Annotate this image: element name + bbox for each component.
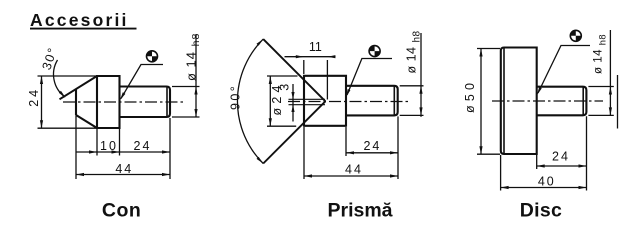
centerline [492, 100, 603, 102]
arrows of 24 [346, 151, 398, 154]
block rectangle [304, 75, 346, 127]
head rectangle [97, 75, 120, 129]
dim o50: extension lines [477, 49, 500, 155]
dim 24 left: dimension line [41, 76, 43, 128]
arrows of 40 [501, 186, 587, 189]
text 40 [538, 174, 556, 188]
leader line to datum symbol [347, 59, 392, 96]
shaft chamfer line [393, 86, 395, 116]
dim 11: arrows [296, 55, 336, 58]
svg-text:ø50: ø50 [463, 79, 477, 113]
datum symbol (quadrant circle) [369, 46, 380, 57]
svg-text:Disc: Disc [520, 200, 562, 222]
svg-text:ø 14 h8: ø 14 h8 [184, 33, 203, 81]
title underline [30, 28, 137, 30]
svg-text:Prismă: Prismă [327, 200, 392, 222]
dim 24 left: arrows [40, 76, 43, 128]
svg-text:Con: Con [102, 200, 141, 222]
dim 3: dimension line [292, 84, 294, 122]
text 44 [115, 162, 133, 176]
svg-text:40: 40 [538, 174, 556, 188]
dim 3: text [278, 84, 292, 91]
right border segment [617, 75, 619, 129]
dim line 44 [304, 175, 398, 177]
leader arrow [346, 89, 350, 97]
dim o14 h8: extension lines [172, 87, 200, 118]
dim o24: dimension line [269, 76, 271, 126]
svg-text:44: 44 [345, 163, 363, 177]
shaft outline [537, 87, 587, 116]
dim o50: text [463, 79, 477, 113]
dim line 44 [76, 174, 170, 176]
svg-text:24: 24 [134, 139, 152, 153]
angle dim 30: arrow [59, 91, 66, 98]
svg-text:90°: 90° [229, 84, 243, 110]
text 24 [552, 149, 570, 163]
V-groove lower flank (extended) [263, 101, 325, 163]
label Prisma [327, 200, 392, 222]
arrows of 44 [304, 174, 398, 177]
centerline [63, 101, 184, 103]
svg-text:11: 11 [309, 40, 322, 54]
dim o14 h8: arrows [419, 86, 422, 116]
centerline [288, 101, 409, 103]
svg-text:24: 24 [27, 87, 41, 107]
dim o50: dimension line [480, 49, 482, 155]
bottom extension lines [304, 116, 398, 179]
shaft chamfer line [582, 87, 584, 116]
svg-text:10: 10 [100, 139, 118, 153]
cone bottom slant [76, 115, 97, 128]
dim 11: text [309, 40, 322, 54]
bottom extension lines [501, 116, 587, 190]
disc rectangle [501, 48, 537, 155]
leader line to datum symbol [121, 65, 163, 99]
svg-text:ø 14 h8: ø 14 h8 [593, 34, 608, 74]
dim o24: arrows [269, 76, 272, 126]
arrows of 24 [537, 164, 587, 167]
dim 11: extension lines [304, 60, 328, 100]
center hole outline [289, 99, 326, 104]
datum symbol (quadrant circle) [147, 51, 158, 62]
dim o14 h8: dimension line [195, 34, 197, 117]
dim o14 h8: arrows [609, 87, 612, 116]
svg-text:24: 24 [363, 139, 381, 153]
cone top slant (extended for angle dim) [60, 76, 98, 99]
shaft outline [120, 87, 171, 118]
dim o24: extension lines [267, 76, 298, 126]
arrows of 44 [76, 173, 170, 176]
dim o24: text [270, 81, 284, 115]
leader arrow [537, 87, 542, 95]
dim o14 h8: dimension line [420, 33, 422, 117]
dim 24 left: extension lines [38, 76, 97, 128]
dim o14 h8: arrows [194, 87, 197, 118]
dim 11: dimension line [285, 56, 336, 58]
text 10 [100, 139, 118, 153]
svg-text:44: 44 [115, 162, 133, 176]
svg-text:24: 24 [552, 149, 570, 163]
angle dim 90: arc [237, 39, 263, 163]
svg-text:ø 14 h8: ø 14 h8 [405, 30, 423, 73]
dim 24 left: text [27, 87, 41, 107]
leader line to datum symbol [538, 46, 590, 94]
dim o14 h8: extension lines [588, 87, 613, 116]
shaft chamfer line [166, 87, 168, 118]
dim o14 h8: text [405, 30, 423, 73]
dim o14 h8: text [593, 34, 608, 74]
dim line 24 [537, 165, 587, 167]
arrows of 10/24 [89, 150, 170, 153]
dim o14 h8: extension lines [400, 86, 424, 116]
dim line 10/24 [76, 151, 170, 153]
text 24 [134, 139, 152, 153]
dim line 24 [346, 152, 398, 154]
text 44 [345, 163, 363, 177]
dim 3: arrows [291, 92, 294, 112]
svg-text:3: 3 [278, 84, 292, 91]
title Accesorii [30, 10, 129, 30]
svg-text:Accesorii: Accesorii [30, 10, 129, 30]
angle dim 90: arrows [257, 39, 264, 163]
dim o50: arrows [479, 49, 482, 155]
dim o14 h8: text [184, 33, 203, 81]
disc inner face line [503, 48, 505, 155]
label Con [102, 200, 141, 222]
svg-text:30°: 30° [40, 45, 61, 72]
cone small end face [75, 89, 77, 115]
text 24 [363, 139, 381, 153]
angle dim 30: text [40, 45, 61, 72]
shaft outline [346, 86, 398, 116]
datum symbol (quadrant circle) [570, 30, 581, 41]
leader arrow [120, 92, 125, 100]
label Disc [520, 200, 562, 222]
angle dim 30: arc [54, 60, 65, 97]
angle dim 90: text [229, 84, 243, 110]
bottom extension lines [76, 109, 170, 179]
dim line 40 [501, 187, 587, 189]
dim o14 h8: dimension line [609, 30, 611, 115]
V-groove upper flank (extended) [263, 39, 325, 101]
